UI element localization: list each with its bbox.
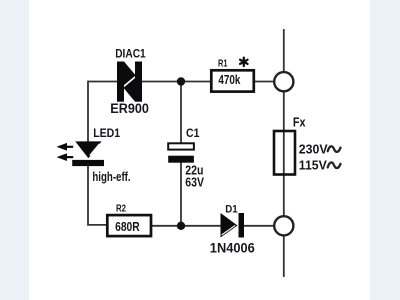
diac DIAC1 right bar [135, 62, 142, 102]
LED1 triangle [75, 141, 101, 158]
svg-text:LED1: LED1 [93, 128, 121, 140]
left page band [0, 0, 29, 300]
diac DIAC1 top triangle [124, 61, 136, 85]
LED1 emission arrow 1 [57, 143, 74, 151]
svg-text:1N4006: 1N4006 [210, 240, 255, 256]
AC wave after 230V [328, 146, 341, 152]
resistor R2 body [107, 215, 151, 236]
svg-text:D1: D1 [225, 204, 237, 216]
LED1 emission arrow 2 [57, 153, 74, 161]
wire: left vertical from top rail to LED1 anode [87, 81, 89, 142]
diode D1 triangle white inset [222, 225, 236, 235]
wire: D1 to bottom terminal [244, 225, 274, 227]
diode D1 triangle [221, 213, 238, 238]
wire: DIAC1 to junction A [142, 81, 182, 83]
wire: top rail left corner to DIAC1 [88, 81, 118, 83]
junction dot A [177, 77, 185, 85]
wire: top terminal to fuse and through fuse to bottom terminal [283, 91, 285, 216]
LED1 cathode bar [72, 160, 104, 166]
wire: junction A to R1 [181, 81, 212, 83]
right page band [370, 0, 400, 300]
svg-text:ER900: ER900 [110, 101, 149, 116]
svg-text:230V: 230V [299, 141, 328, 156]
svg-text:63V: 63V [185, 174, 204, 189]
junction dot B [177, 222, 185, 230]
diode D1 cathode bar [239, 213, 245, 238]
AC wave after 115V [328, 162, 341, 168]
wire: LED1 cathode down and bottom rail corner to R2 [88, 166, 108, 226]
wire: R2 to D1 through junction B [151, 225, 221, 227]
wire: right vertical bottom stub [283, 235, 285, 277]
svg-text:115V: 115V [299, 158, 327, 173]
capacitor C1 bottom plate [168, 156, 194, 163]
svg-text:R2: R2 [116, 203, 126, 215]
LED1 triangle white inset [90, 144, 100, 156]
svg-text:680R: 680R [115, 219, 140, 234]
svg-text:Fx: Fx [293, 115, 306, 129]
capacitor C1 top plate [168, 143, 194, 149]
svg-text:high-eff.: high-eff. [92, 170, 130, 184]
terminal circle bottom [274, 216, 293, 235]
wire: right vertical top stub [283, 29, 285, 72]
svg-text:DIAC1: DIAC1 [115, 48, 146, 60]
diac DIAC1 bottom triangle [123, 78, 135, 102]
fuse Fx body [274, 131, 295, 175]
svg-text:C1: C1 [186, 126, 200, 140]
svg-text:470k: 470k [218, 72, 241, 87]
diac DIAC1 left bar [117, 62, 124, 102]
resistor R1 body [211, 70, 254, 91]
svg-text:R1: R1 [218, 59, 228, 70]
terminal circle top [274, 72, 293, 91]
wire: R1 to top terminal [254, 81, 275, 83]
wire: C1 top lead [180, 82, 182, 144]
asterisk by R1 [240, 58, 247, 66]
wire: C1 bottom lead [180, 163, 182, 226]
